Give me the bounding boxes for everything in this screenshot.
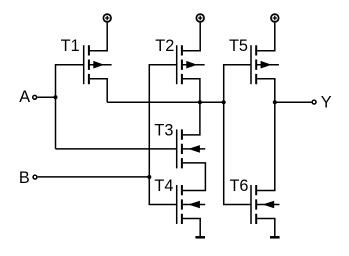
- transistor T5: [251, 45, 279, 84]
- wire node to T5 gate: [224, 65, 251, 103]
- transistor T2: [177, 45, 205, 84]
- input terminal B: [33, 175, 37, 179]
- wire input B: [38, 176, 150, 178]
- wire T2 source down to node: [183, 79, 200, 103]
- wire T3 source to T4 drain: [183, 163, 206, 191]
- wire A to T1 gate: [56, 65, 84, 149]
- wire T6 source to ground: [257, 219, 275, 237]
- svg-text:T6: T6: [229, 177, 248, 195]
- node Y junction: [273, 100, 277, 104]
- wire NAND output node: [107, 101, 224, 103]
- svg-text:T4: T4: [154, 177, 173, 195]
- wire VDD1 to T1 drain: [90, 23, 107, 51]
- transistor T6: [251, 185, 280, 224]
- wire VDD2 to T2 drain: [183, 23, 200, 51]
- svg-text:T5: T5: [229, 37, 248, 55]
- transistor T4: [177, 185, 206, 224]
- wire B to T2 gate: [149, 65, 176, 177]
- wire node to T6 gate: [224, 102, 251, 204]
- wire input A: [37, 96, 55, 98]
- wire T4 source to ground: [183, 219, 200, 237]
- svg-text:T3: T3: [154, 121, 173, 139]
- output terminal Y: [312, 100, 316, 104]
- transistor T1: [84, 45, 112, 84]
- node A junction: [54, 95, 58, 99]
- svg-text:T2: T2: [155, 37, 174, 55]
- svg-text:Y: Y: [321, 94, 332, 112]
- wire A to T3 gate: [56, 148, 177, 150]
- node NAND-inverter junction: [222, 100, 226, 104]
- node NAND-T2T3 junction: [198, 100, 202, 104]
- node B junction: [147, 175, 151, 179]
- ground GND2: [270, 236, 280, 239]
- wire B to T4 gate: [149, 177, 176, 205]
- positive supply VDD1: [103, 14, 111, 22]
- ground GND1: [195, 236, 205, 239]
- svg-text:T1: T1: [61, 37, 80, 55]
- positive supply VDD2: [196, 14, 204, 22]
- transistor T3: [177, 129, 206, 168]
- positive supply VDD3: [271, 14, 279, 22]
- wire output Y: [275, 101, 312, 103]
- svg-text:B: B: [19, 169, 30, 187]
- wire T1 source to output node: [90, 79, 107, 103]
- wire T3 drain up to node: [183, 102, 200, 135]
- wire VDD3 to T5 drain: [257, 23, 275, 51]
- wire T5 source / T6 drain: [257, 79, 275, 191]
- svg-text:A: A: [19, 88, 30, 106]
- input terminal A: [33, 95, 37, 99]
